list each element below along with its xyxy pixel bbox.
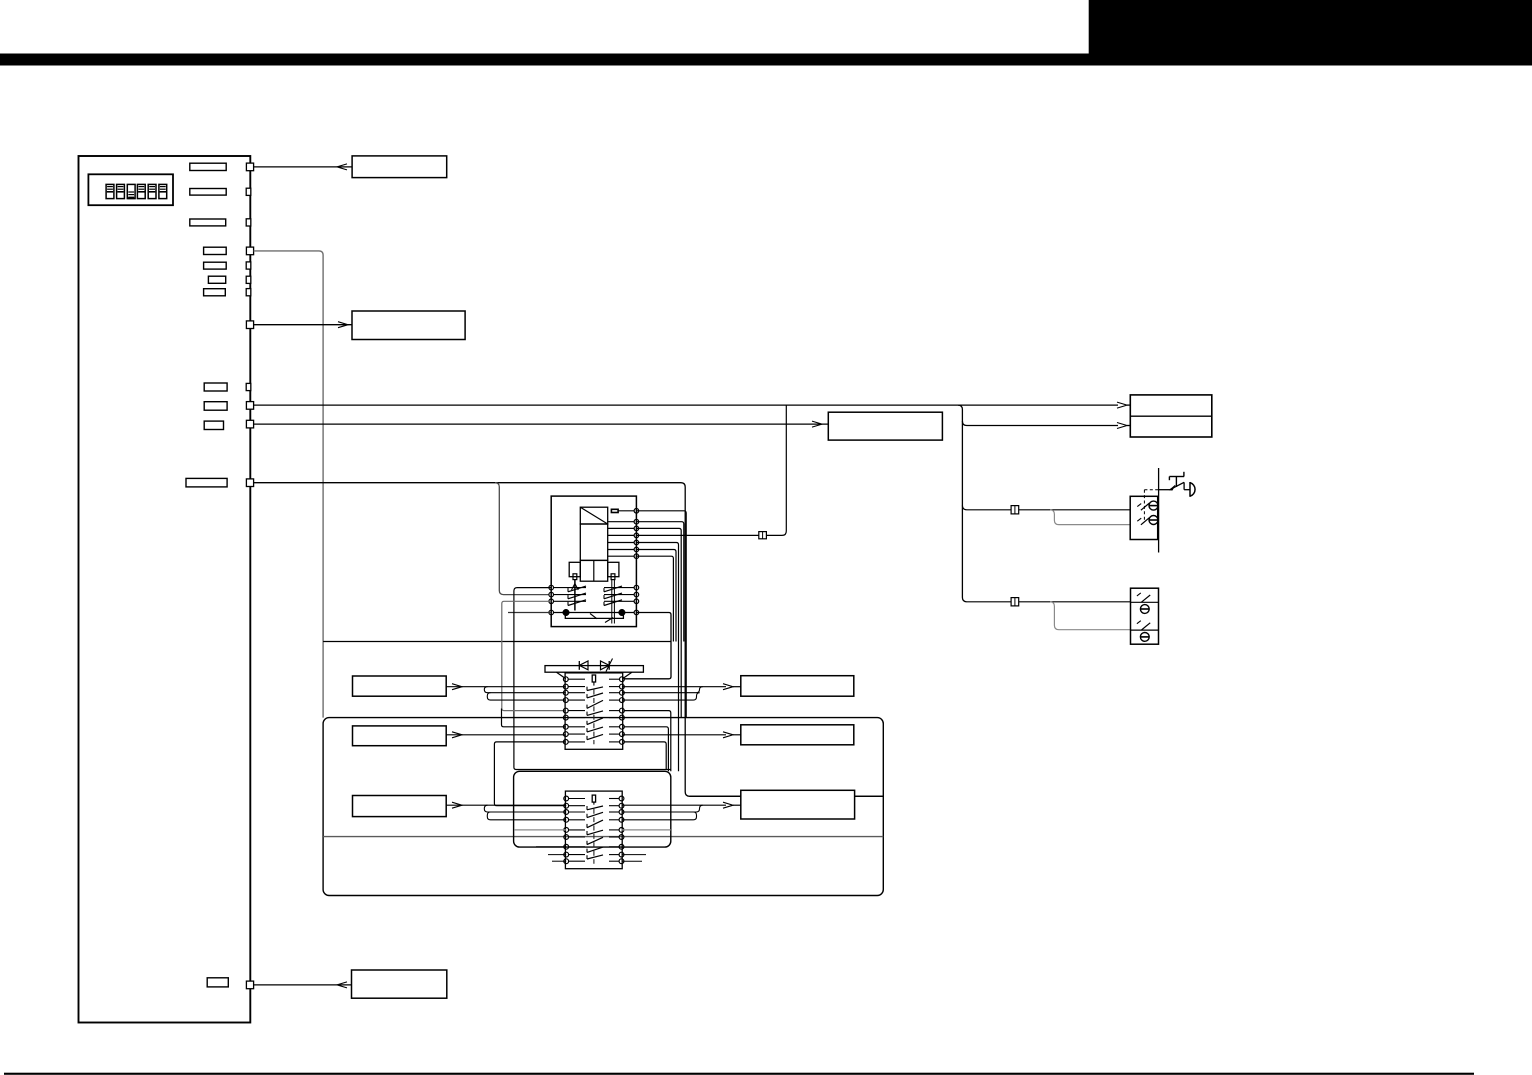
pin stub 6 [208,276,225,283]
label box K7 right [741,676,854,697]
contact bank CB1 node right [620,708,625,713]
contact bank CB2 node left [564,859,569,864]
arrowhead into K10 [723,802,733,808]
relay RY1 outline [551,496,636,626]
wire crossbar to left trunk [323,641,671,643]
enclosure A right side down [681,483,883,797]
SW1 contact 1 [1141,503,1150,510]
wire relay wrap r3 [636,528,681,717]
SW2 divider 2 [1131,629,1159,631]
arrowhead into pin13 [337,982,347,988]
contact bank CB2 contact 3 [587,820,603,828]
DIP switch S1 element 2 [117,184,125,198]
contact bank CB2 node right [619,828,624,833]
relay base wing right [608,562,619,576]
wire relay wrap r5 [636,543,678,772]
wire CB1 to K9 right [622,734,726,736]
contact bank CB2 node right [619,844,624,849]
wire pin10 long bus to right [254,404,1118,406]
relay base block [580,560,607,581]
contact bank CB1 node right [620,732,625,737]
wire K6 to CB2 [446,804,566,806]
DIP switch S1 element 1 [106,184,114,198]
contact bank CB1 fuse [592,675,595,682]
CB2 left stubs rows789 [536,846,566,848]
contact bank CB1 contact 6 [587,727,603,732]
pin stub 10 [204,421,223,429]
wire branch to SW1 lower [1050,510,1130,525]
connector pad pin 7 [246,289,251,296]
SW1 terminal t1 [1149,501,1158,510]
trunk down from pin10 bus [958,405,967,602]
wire relay row c to bank row5 [502,601,566,710]
contact bank CB2 node left [564,810,569,815]
label box K10 right [741,790,855,819]
branch down to contact bank row5 [495,483,549,595]
label box K4 left [353,676,447,696]
contact bank CB2 node left [564,852,569,857]
wire row6 lower bank long [323,836,883,838]
connector pad pin 4 [246,247,253,255]
switch box SW2 [1131,588,1159,644]
connector pad pin 8 [246,321,253,329]
CB1 right elbow row3 [622,687,703,693]
CB2 left stub row5 [514,829,566,831]
diode D1 [579,661,588,670]
contact bank CB1 node left [563,708,568,713]
contact bank CB1 node left [563,715,568,720]
contact bank CB2 node left [564,803,569,808]
contact bank CB1 node right [620,715,625,720]
wire CB1 row9 left wrap to CB2 [494,742,566,806]
contact bank CB2 node left [564,817,569,822]
label box K8 [352,970,447,998]
CB1 left elbow row3 [484,687,566,693]
relay coil wire 5 [608,542,635,544]
arrowhead into K7 [723,684,733,690]
diode D2 [601,661,610,670]
contact bank CB1 contact 5 [587,718,603,725]
wire pin1 to box K1 [254,166,353,168]
SW1 terminal t2 [1149,516,1158,525]
contact bank CB2 box [565,791,622,869]
relay contact row [553,600,586,602]
label box K2 [352,311,465,340]
footer rule [4,1073,1474,1075]
contact bank CB2 node right [619,817,624,822]
arrowhead into K3 [812,421,822,427]
relay bottom link [565,613,623,619]
contact bank CB1 contact 3 [587,700,603,708]
CB2 right elbow row4 [622,812,697,820]
inline connector J3 [1011,506,1019,514]
SW1 vertical rail [1158,468,1160,553]
contact bank CB2 contact 1 [587,806,603,810]
contact bank CB2 contact 2 [587,812,603,817]
relay node left [549,610,554,615]
wire CB1 row9 elbow down right [624,742,666,770]
contact bank CB1 contact 2 [587,693,603,698]
connector pad pin 11 [246,420,253,428]
relay common stub left [508,612,551,614]
relay coil wire 3 [608,527,635,529]
header rule bar [0,54,1532,66]
CB1 right elbow row4 [622,693,700,700]
wire pin13 from box K8 [254,984,352,986]
arrowhead K5 [452,732,462,738]
branch trunk to fuse box lower cell [962,421,1118,425]
wire CB1 row5 to enclosure D edge [624,711,671,772]
relay node right [634,610,639,615]
contact bank CB1 node right [620,684,625,689]
contact bank CB1 node left [563,690,568,695]
contact bank CB1 actuator link [593,690,595,745]
arrowhead into K9 [723,732,733,738]
SW1 mech dashed link [1143,490,1145,522]
CB2 left elbow row4 [487,812,566,820]
relay contact dots [563,609,570,616]
wire pin8 to box K2 [254,324,352,326]
wire branch to SW2 lower [1050,602,1131,630]
CB2 left elbow row3 [484,805,566,812]
pin stub 11 [186,478,227,487]
contact bank CB1 node left [563,684,568,689]
contact bank CB1 node right [620,724,625,729]
label box K6 left [353,796,447,817]
contact bank CB2 node left [564,796,569,801]
relay contact row [553,587,586,589]
connector pad pin 6 [246,276,251,283]
contact bank CB1 contact 1 [587,687,603,691]
CB1 left elbow row4 [487,693,566,700]
arrowhead K6 [452,802,462,808]
wire CB1 row7 elbow down [624,727,668,772]
contact bank CB2 node right [619,803,624,808]
contact bank CB2 node right [619,835,624,840]
wire CB1 to K7 right [622,686,726,688]
control unit U1 outline [79,156,251,1023]
contact bank CB2 contact 4 [587,830,603,835]
diode bar plate [545,666,643,673]
DIP switch S1 element 3 [127,184,135,198]
arrowhead into fuse box bottom [1117,423,1127,429]
label box K1 [352,156,447,178]
SW2 contact 1 [1141,595,1150,602]
pin stub 3 [190,219,226,226]
wire CB2 to K10 right [622,804,727,806]
contact bank CB1 node right [620,677,625,682]
relay contact row [553,594,586,596]
wire pin12 enclosure A top [254,482,681,484]
contact bank CB2 node right [619,852,624,857]
SW2 terminal t1 [1140,605,1149,614]
pin stub 9 [204,402,227,411]
CB2 right stubs rows89 [622,854,647,856]
wire K5 to CB1 [446,734,566,736]
wire pin11 to box K3 [254,423,829,425]
pin stub 1 [190,163,226,170]
arrowhead into K2 [338,322,348,328]
DIP switch S1 block [88,174,173,205]
pin stub 5 [204,262,227,269]
buzzer BZ1 [1159,489,1170,491]
enclosure D rounded [514,771,671,847]
contact bank CB1 node left [563,740,568,745]
contact bank CB1 contact 4 [587,711,603,716]
relay plunger right [611,574,615,580]
contact bank CB1 node right [620,698,625,703]
label box K5 left [353,726,447,746]
relay coil with diagonal [580,507,607,524]
relay node right [634,585,639,590]
DIP switch S1 element 5 [148,184,156,198]
wire relay row a wrap down left [514,588,671,770]
SW2 terminal t2 [1140,633,1149,642]
contact bank CB1 node left [563,677,568,682]
branch trunk to switch SW1 [962,505,1011,509]
wire J4 to SW2 [1019,601,1131,603]
contact bank CB2 node right [619,859,624,864]
branch trunk to switch SW2 [967,601,1011,603]
contact bank CB2 contact 7 [587,855,603,859]
CB2 right elbow row3 [622,805,703,812]
pin stub 8 [204,383,227,391]
plunger arrow up [572,584,579,591]
wire connector J2 up to bus [766,405,786,535]
contact bank CB1 contact 7 [587,734,603,739]
contact bank CB2 contact 6 [587,847,603,852]
arrowhead K4 [452,684,462,690]
contact bank CB1 node right [620,690,625,695]
SW2 contact 2 [1141,623,1150,630]
relay base wing left [569,562,580,576]
wire relay row4 to connector [636,534,758,536]
header black title block [1089,0,1532,66]
wire J3 to SW1 [1019,509,1130,511]
relay node right [634,592,639,597]
relay coil body [580,524,607,560]
relay terminal tab [611,509,618,512]
wire relay common wrap to bank row1 [624,613,671,679]
relay coil wire 1 [618,510,635,512]
connector pad pin 5 [246,262,251,269]
switch box SW1 [1130,496,1158,539]
arrowhead into fuse box top [1117,402,1127,408]
connector pad pin 1 [246,163,253,171]
inline connector J4 [1011,598,1019,606]
contact bank CB1 node right [620,740,625,745]
DIP switch S1 element 6 [159,184,167,198]
wire CB1 row7 left hook [502,709,566,727]
relay bottom common row [553,612,635,614]
label box K3 [828,412,942,440]
DIP switch S1 element 4 [137,184,145,198]
contact bank CB2 node right [619,810,624,815]
SW2 divider 1 [1131,601,1159,603]
relay node left [549,585,554,590]
relay coil wire 6 [608,549,635,551]
wire relay wrap r6 [636,550,676,642]
relay coil wire 2 [608,521,635,523]
wire relay wrap r1 [636,511,686,718]
wire relay wrap r7 [636,556,673,641]
contact bank CB2 actuator link [593,809,595,864]
relay plunger left [573,574,577,580]
contact bank CB2 node left [564,844,569,849]
relay coil wire 4 [608,534,635,536]
contact bank CB1 node left [563,698,568,703]
pin stub 4 [204,247,227,254]
wire A bottom continues [690,795,884,797]
fusible link box two cells [1130,395,1212,437]
wire pin4 down trunk [254,251,324,718]
wire K4 to CB1 [446,686,566,688]
relay node right [634,599,639,604]
connector pad pin 10 [246,402,253,410]
pin stub 2 [190,189,226,196]
label box K9 right [741,725,854,745]
relay node left [549,592,554,597]
buzzer switch arrow tip [1170,485,1176,490]
connector pad pin 3 [246,219,251,226]
contact bank CB2 contact 5 [587,837,603,844]
arrowhead into pin1 [337,164,347,170]
relay node left [549,599,554,604]
contact bank CB1 node left [563,732,568,737]
CB2 right stub row5 [622,829,671,831]
connector pad pin 9 [246,383,251,390]
contact bank CB2 fuse [592,795,595,802]
contact bank CB2 node right [619,796,624,801]
contact bank CB2 node left [564,835,569,840]
pin stub 7 [204,289,226,296]
fuse box divider [1130,415,1212,417]
connector pad pin 12 [246,479,253,487]
connector pad pin 13 [246,981,253,989]
contact bank CB2 node left [564,828,569,833]
wire loop B rounded [323,718,883,896]
inline connector J2 [759,532,767,539]
SW1 contact 2 [1141,518,1150,525]
contact bank CB1 box [565,673,623,749]
relay coil wire 7 [608,555,635,557]
contact bank CB1 node left [563,724,568,729]
wire relay wrap r2 [636,522,683,642]
pin stub 12 [207,978,228,987]
connector pad pin 2 [246,188,251,195]
